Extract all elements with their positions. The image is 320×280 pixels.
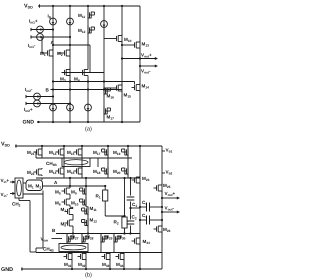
label M34 [116,262,124,268]
transistor M25 [154,184,163,193]
label M3 [60,77,66,83]
capacitor C1 [127,177,140,220]
label M14 [142,84,150,90]
svg-text:M13: M13 [142,42,150,48]
svg-text:M15: M15 [67,150,75,156]
label M12 [90,218,98,224]
wire col140 (b) [139,145,141,270]
wire gate bus row1 [42,37,62,53]
svg-text:Vin-: Vin- [1,192,9,198]
wire bus2 [36,177,140,179]
current sink IB5 [67,104,74,124]
wire node B [51,88,123,90]
svg-text:M19: M19 [113,150,121,156]
label Vb1 [166,148,173,154]
label M11 [78,13,85,19]
wire col3 mid [87,42,89,104]
label Iin1- [28,43,36,49]
svg-text:M2: M2 [36,184,42,190]
transistor M32 row4 [78,253,88,271]
transistor M6 [62,195,71,206]
svg-text:A: A [54,180,58,185]
svg-text:M5: M5 [55,190,61,196]
wire node A (b) [43,185,106,187]
transistor M4 [80,68,89,77]
power rail VDD (a) [24,4,140,10]
label M17 [93,150,101,156]
svg-text:M10: M10 [71,201,79,207]
transistor M11 [88,11,95,20]
label Iin2- [25,87,33,93]
transistor M31 row4 [64,253,74,271]
transistor M18 row2 [102,158,109,178]
wire fb left2 [36,194,43,252]
svg-text:Vcm: Vcm [41,237,49,243]
transistor M16 [104,87,111,96]
transistor M34 row4 [116,253,126,271]
svg-text:Vout-: Vout- [141,69,151,75]
transistor M12 [82,215,89,227]
transistor M30 row3 [114,234,121,253]
wire col73 bottom [72,227,74,234]
svg-text:M7: M7 [61,207,67,213]
input wire Iin2+ [26,100,71,107]
transistor M22 [34,168,43,180]
transistor M29 row3 [101,234,108,253]
label M28 [86,235,94,241]
label M9 [124,37,132,43]
label R2 [114,220,119,226]
current source IB1 [50,5,57,26]
wire column M11 stack [87,5,89,42]
label IB [48,14,52,20]
svg-text:Iin2+: Iin2+ [24,107,33,113]
svg-text:M14: M14 [142,84,150,90]
svg-text:R1: R1 [96,194,101,200]
svg-text:M33: M33 [102,262,110,268]
label M30 [118,235,126,241]
svg-text:Iin1+: Iin1+ [29,19,38,25]
chopper CH2 input [15,178,23,198]
label M11 [90,206,97,212]
svg-text:Vb2: Vb2 [166,170,173,176]
svg-text:M28: M28 [86,235,94,241]
svg-text:B: B [52,228,56,233]
svg-text:CH2: CH2 [12,202,21,208]
svg-text:Iin1-: Iin1- [28,43,36,49]
svg-text:M15: M15 [124,93,132,99]
svg-text:M29: M29 [105,235,113,241]
wire Vout+ [121,57,158,60]
label M31 [64,262,72,268]
transistor M15 top row [74,145,84,158]
label M20 [113,169,121,175]
svg-text:M24: M24 [143,239,151,245]
label M32 [78,262,86,268]
transistor M28 row3 [82,234,89,245]
transistor M9 [80,177,88,196]
svg-text:M6: M6 [55,201,61,207]
wire column5 [121,5,123,123]
label CH4B top [46,161,57,167]
power rail VDD (b) [1,142,162,148]
label Vin- [1,192,9,198]
transistor M9 [104,34,122,43]
wire Vcm lead [52,238,63,240]
svg-text:M13: M13 [49,150,57,156]
label Iin1+ [29,19,38,25]
chopper CH4B top [62,158,90,167]
svg-text:M17: M17 [93,150,101,156]
wire Vin+ [10,181,16,184]
svg-text:M30: M30 [118,235,126,241]
transistor M15 [104,84,122,93]
input wire Iin1+ [31,26,54,33]
svg-text:M23: M23 [142,176,150,182]
svg-text:Vin+: Vin+ [1,178,10,184]
svg-text:M11: M11 [78,13,85,19]
svg-text:Vb1: Vb1 [166,148,173,154]
label M15 [67,150,75,156]
svg-text:M1: M1 [40,51,46,57]
transistor M2 [62,49,71,58]
chopper CH4B bottom [59,244,88,252]
label Vout+ [141,53,152,59]
transistor M1 [45,49,54,58]
current sink IB4 [50,104,57,124]
label M13 [142,42,150,48]
svg-text:Iin2-: Iin2- [25,87,33,93]
svg-text:M22: M22 [27,170,35,176]
svg-text:C2: C2 [132,215,137,221]
transistor M14 row2 [56,158,65,178]
transistor M5 [62,177,72,195]
label Vout+ (b) [165,191,176,197]
label M26 [163,227,171,233]
label CH4B bottom [43,247,54,253]
node A [51,40,55,45]
transistor M21 top row [34,145,44,158]
svg-text:M27: M27 [71,235,79,241]
label M16 [107,94,115,100]
label M25 [163,183,171,189]
wire node A [52,44,90,73]
label M14 [49,169,57,175]
svg-text:Vout-: Vout- [165,206,175,212]
svg-text:C1: C1 [132,202,137,208]
transistor M12 [88,26,95,35]
wire right border column (a) [139,6,141,122]
wire column2 [69,25,71,104]
transistor M16 row2 [74,158,83,178]
svg-text:M31: M31 [64,262,72,268]
label Vin+ [1,178,10,184]
svg-text:R2: R2 [114,220,119,226]
label M21 [27,150,35,156]
svg-text:M32: M32 [78,262,86,268]
wire top bus [34,152,133,167]
svg-text:M9: M9 [71,190,77,196]
wire Vout- (b) [161,211,180,214]
svg-text:GND: GND [1,267,13,273]
svg-text:M12: M12 [78,28,86,34]
wire bus y80 [52,80,135,84]
svg-text:M34: M34 [116,262,124,268]
wire Vb1 [162,150,165,152]
resistor R1 [103,185,108,216]
label M29 [105,235,113,241]
label M17 [107,115,115,121]
label M9 [71,190,77,196]
label Vout- [141,69,151,75]
svg-text:M11: M11 [90,206,97,212]
svg-text:C3: C3 [142,200,147,206]
wire fb left1 [19,198,36,252]
transistor M10 [80,195,87,207]
transistor M17 [104,107,111,116]
wire gate bus row2 [62,72,105,74]
input wire Iin2- [26,93,54,100]
svg-text:M26: M26 [163,227,171,233]
label M24 [143,239,151,245]
wire Vb2 [162,172,165,174]
label M8 [61,222,67,228]
label M5 [55,190,61,196]
label M1 [40,51,46,57]
transistor M19 top row [122,145,130,158]
svg-text:C4: C4 [142,213,147,219]
capacitor C4 [139,216,163,225]
svg-text:M20: M20 [113,169,121,175]
label M7 [61,207,67,213]
transistor M27 row3 [67,234,74,245]
node A (b) [54,180,58,185]
current sink IB6 [85,104,92,124]
label C1 [132,202,137,208]
wire node B (b) [56,232,140,234]
transistor M17 top row [102,145,110,158]
label M18 [93,169,101,175]
label M12 [78,28,86,34]
caption (b) [85,272,92,279]
svg-text:M2: M2 [57,51,63,57]
label C3 [142,200,147,206]
label R1 [96,194,101,200]
transistor M24 [132,237,141,246]
transistor M23 [132,176,141,185]
node B (b) [52,228,56,233]
transistor M7 [65,206,74,216]
wire mid node [105,177,125,217]
label M22 [27,170,35,176]
label M19 [113,150,121,156]
transistor M13 [121,41,140,50]
svg-text:M25: M25 [163,183,171,189]
transistor M26 [154,225,163,234]
svg-text:M1: M1 [28,184,34,190]
label Vout- (b) [165,206,175,212]
label M33 [102,262,110,268]
wire Vin- [10,192,16,195]
svg-text:(a): (a) [85,126,92,133]
svg-text:Vout+: Vout+ [141,53,152,59]
svg-text:Vout+: Vout+ [165,191,176,197]
svg-text:M21: M21 [27,150,35,156]
node B [46,88,50,93]
transistor M13 top row [56,145,66,158]
label M2 [57,51,63,57]
wire Vout+ (b) [161,197,180,200]
wire right border column (b) [161,146,163,269]
label M13 [49,150,57,156]
ground rail GND (a) [23,120,141,126]
label M15 [124,93,132,99]
svg-text:M16: M16 [67,169,75,175]
label M4 [74,77,80,83]
transistor M14 [132,83,141,92]
capacitor C3 [139,203,163,212]
label C4 [142,213,147,219]
label Iin2+ [24,107,33,113]
label CH2 [12,202,21,208]
label M6 [55,201,61,207]
svg-text:(b): (b) [85,272,92,279]
svg-text:CH4B: CH4B [46,161,57,167]
wire column1 [52,25,54,104]
ground rail GND (b) [1,267,162,273]
label C2 [132,215,137,221]
label Vcm [41,237,49,243]
transistor M20 row2 [122,158,129,178]
input pair M1 M2 [23,180,43,194]
svg-text:GND: GND [23,120,35,126]
transistor M11 [82,206,89,216]
wire column4 [103,28,105,123]
label M23 [142,176,150,182]
transistor M33 row4 [102,253,112,271]
svg-text:M8: M8 [61,222,67,228]
input wire Iin1- [31,34,71,41]
svg-text:M16: M16 [107,94,115,100]
label Vb2 [166,170,173,176]
current source IB3 [101,5,108,28]
capacitor C2 [127,221,135,234]
svg-text:VDD: VDD [24,4,33,10]
current source IB2 [67,5,74,26]
svg-text:M14: M14 [49,169,57,175]
wire Vout- [139,65,158,68]
label M10 [71,201,79,207]
transistor M8 [65,216,74,228]
caption (a) [85,126,92,133]
wire col88 bottom [87,227,89,234]
svg-text:VDD: VDD [1,142,10,148]
svg-text:M17: M17 [107,115,115,121]
svg-text:M12: M12 [90,218,98,224]
label M27 [71,235,79,241]
svg-text:M10: M10 [124,37,132,43]
svg-text:M18: M18 [93,169,101,175]
svg-text:CH4B: CH4B [43,247,54,253]
label M16 [67,169,75,175]
wire bus3 [36,252,162,254]
resistor R2 [122,216,127,234]
svg-text:B: B [46,88,50,93]
transistor M3 [62,68,71,77]
